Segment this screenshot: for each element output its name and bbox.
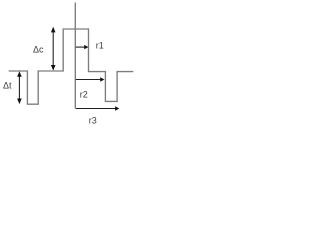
- svg-text:Δt: Δt: [3, 80, 12, 90]
- svg-text:r2: r2: [80, 89, 88, 99]
- dimension arrow Δt (vertical double arrow): [17, 71, 22, 104]
- dimension arrow r2 (horizontal): [76, 77, 105, 81]
- dimension arrow Δc (vertical double arrow): [51, 27, 56, 71]
- wire: W-profile waveform: [9, 29, 134, 104]
- svg-text:Δc: Δc: [33, 44, 44, 54]
- svg-text:r1: r1: [96, 41, 104, 51]
- dimension arrow r1 (horizontal): [76, 45, 89, 49]
- dimension arrow r3 (horizontal): [76, 106, 120, 110]
- svg-text:r3: r3: [89, 115, 97, 125]
- center axis line: [74, 3, 76, 109]
